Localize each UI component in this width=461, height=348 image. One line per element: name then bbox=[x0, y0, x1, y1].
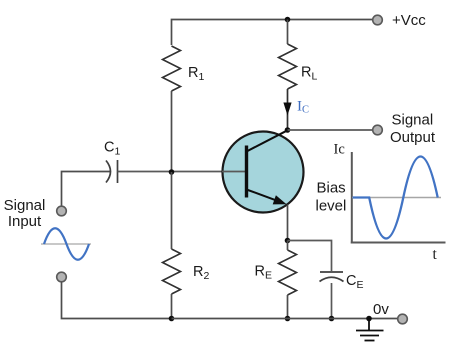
wire R1 bottom to base node bbox=[171, 91, 173, 172]
node CE rail junction bbox=[329, 316, 335, 322]
wire RL bottom to collector node bbox=[287, 89, 289, 130]
svg-text:level: level bbox=[316, 198, 347, 215]
graph output waveform bbox=[353, 157, 438, 239]
wire CE bottom to rail bbox=[331, 283, 333, 319]
capacitor CE straight plate bbox=[320, 271, 343, 273]
node emitter junction bbox=[285, 238, 291, 244]
graph x-axis bbox=[351, 242, 446, 244]
capacitor C1 curved plate bbox=[106, 161, 111, 183]
transistor Q1 collector lead bbox=[247, 130, 288, 151]
resistor R2 bbox=[163, 249, 181, 294]
terminal signal input top bbox=[57, 206, 67, 216]
capacitor CE curved plate bbox=[320, 277, 344, 281]
wire RE bottom to rail bbox=[287, 295, 289, 319]
terminal signal output bbox=[373, 125, 383, 135]
transistor Q1 base bar bbox=[245, 146, 248, 198]
input waveform axis bbox=[41, 243, 91, 245]
node ground junction bbox=[366, 316, 372, 322]
arrow collector current Ic bbox=[283, 103, 291, 116]
svg-text:Bias: Bias bbox=[317, 180, 346, 197]
wire emitter junction to CE branch bbox=[288, 241, 332, 272]
resistor RE bbox=[279, 250, 297, 295]
input waveform sine bbox=[44, 228, 89, 260]
wire base node to R2 top bbox=[171, 172, 173, 249]
node collector junction bbox=[285, 127, 291, 133]
terminal signal input bottom bbox=[57, 272, 67, 282]
terminal 0v bbox=[398, 314, 408, 324]
wire base line bbox=[118, 171, 247, 173]
graph y-axis bbox=[351, 152, 353, 244]
svg-text:Signal: Signal bbox=[392, 112, 434, 129]
svg-text:Output: Output bbox=[390, 129, 436, 146]
svg-text:0v: 0v bbox=[373, 301, 389, 318]
svg-text:t: t bbox=[433, 246, 438, 263]
svg-text:+Vcc: +Vcc bbox=[392, 12, 426, 29]
wire emitter junction to RE top bbox=[287, 241, 289, 251]
resistor RL bbox=[279, 44, 297, 89]
wire signal output line bbox=[288, 129, 373, 131]
wire emitter to junction bbox=[287, 205, 289, 241]
resistor R1 bbox=[163, 46, 181, 91]
svg-text:Ic: Ic bbox=[334, 142, 345, 158]
node junction top of RL bbox=[285, 17, 291, 23]
wire input bottom to rail bbox=[62, 282, 172, 319]
transistor Q1 base lead inside bbox=[222, 171, 247, 173]
svg-text:Input: Input bbox=[8, 213, 42, 230]
wire top rail bbox=[172, 20, 373, 46]
node base junction bbox=[169, 169, 175, 175]
wire R2 bottom to rail bbox=[171, 294, 173, 319]
node RE rail junction bbox=[285, 316, 291, 322]
svg-text:Signal: Signal bbox=[4, 197, 46, 214]
capacitor C1 left lead wire bbox=[62, 172, 111, 207]
wire bottom rail bbox=[172, 318, 398, 320]
transistor Q1 emitter lead bbox=[247, 190, 280, 202]
capacitor C1 straight plate bbox=[117, 160, 119, 183]
node R2 rail junction bbox=[169, 316, 175, 322]
graph bias level line bbox=[352, 197, 441, 199]
transistor Q1 body bbox=[223, 132, 304, 213]
ground bbox=[356, 319, 384, 341]
terminal +Vcc bbox=[373, 15, 383, 25]
wire RL top lead bbox=[287, 20, 289, 45]
transistor Q1 emitter arrowhead bbox=[273, 195, 287, 204]
